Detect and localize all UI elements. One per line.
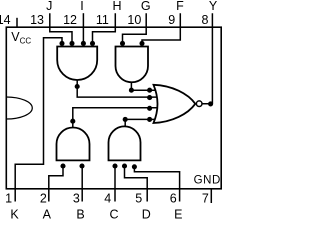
pin 7 stub — [210, 189, 212, 203]
wire D pin5 to AND4 input2 — [125, 166, 148, 202]
svg-text:13: 13 — [30, 13, 44, 27]
wire AND4 output to NOR input4 — [125, 119, 157, 126]
svg-text:2: 2 — [40, 192, 47, 206]
svg-text:GND: GND — [194, 175, 221, 187]
wire G pin10 to AND2 input1 — [123, 13, 147, 43]
Y output corner dot — [208, 101, 213, 106]
svg-text:F: F — [176, 0, 184, 13]
svg-text:C: C — [109, 207, 118, 221]
wire C pin4 to AND4 input1 — [114, 166, 116, 202]
wire AND3 output to NOR input3 — [73, 108, 158, 128]
svg-text:B: B — [76, 207, 84, 221]
svg-text:8: 8 — [201, 13, 208, 27]
notch (left edge half-ellipse) — [6, 97, 32, 119]
wire Y NOR output to pin8 — [202, 13, 212, 104]
svg-text:A: A — [43, 207, 52, 221]
wire H pin11 to AND1 input4 — [93, 13, 116, 43]
IC package outline — [6, 27, 221, 189]
wire I pin12 to AND1 input3 — [82, 13, 84, 43]
svg-text:9: 9 — [168, 13, 175, 27]
svg-text:E: E — [174, 207, 182, 221]
NOR input contact dots — [147, 88, 152, 93]
AND gate U2 (2-input, G F) — [116, 47, 149, 83]
svg-text:10: 10 — [127, 13, 141, 27]
svg-text:6: 6 — [170, 192, 177, 206]
svg-text:CC: CC — [20, 36, 32, 45]
wire AND1 output to NOR input2 — [77, 80, 158, 97]
svg-text:5: 5 — [135, 192, 142, 206]
junction dots AND2 inputs — [120, 41, 125, 46]
svg-text:J: J — [46, 0, 52, 13]
svg-text:H: H — [112, 0, 121, 13]
junction dots AND4 inputs — [112, 163, 117, 168]
AND gate U3 (2-input, A B) — [57, 128, 90, 161]
svg-text:D: D — [142, 207, 151, 221]
svg-text:K: K — [10, 207, 19, 221]
junction dots AND1 inputs — [59, 41, 64, 46]
output dots of AND gates — [75, 84, 80, 89]
wire F pin9 to AND2 input2 — [142, 13, 180, 43]
svg-text:7: 7 — [202, 192, 209, 206]
svg-text:I: I — [80, 0, 83, 13]
svg-text:G: G — [141, 0, 151, 13]
NOR output bubble — [196, 101, 202, 107]
svg-text:4: 4 — [104, 192, 111, 206]
AND gate U1 (4-input, K J I H) — [57, 47, 97, 81]
wire J pin13 to AND1 input2 — [50, 13, 72, 43]
junction dots AND3 inputs — [60, 163, 65, 168]
wire B pin3 to AND3 input2 — [81, 166, 83, 202]
svg-text:12: 12 — [63, 13, 77, 27]
svg-text:14: 14 — [0, 13, 11, 27]
wire AND2 output to NOR input1 — [131, 83, 156, 90]
AND gate U4 (3-input, C D E) — [109, 126, 141, 160]
wire K pin1 to AND1 input1 — [15, 38, 62, 202]
NOR gate U5 — [154, 85, 196, 123]
wire E pin6 to AND4 input3 — [134, 166, 179, 202]
svg-text:1: 1 — [5, 192, 12, 206]
wire A pin2 to AND3 input1 — [49, 166, 63, 202]
svg-text:Y: Y — [209, 0, 218, 13]
pin 14 stub — [16, 18, 18, 27]
svg-text:3: 3 — [73, 192, 80, 206]
svg-text:11: 11 — [96, 13, 109, 27]
